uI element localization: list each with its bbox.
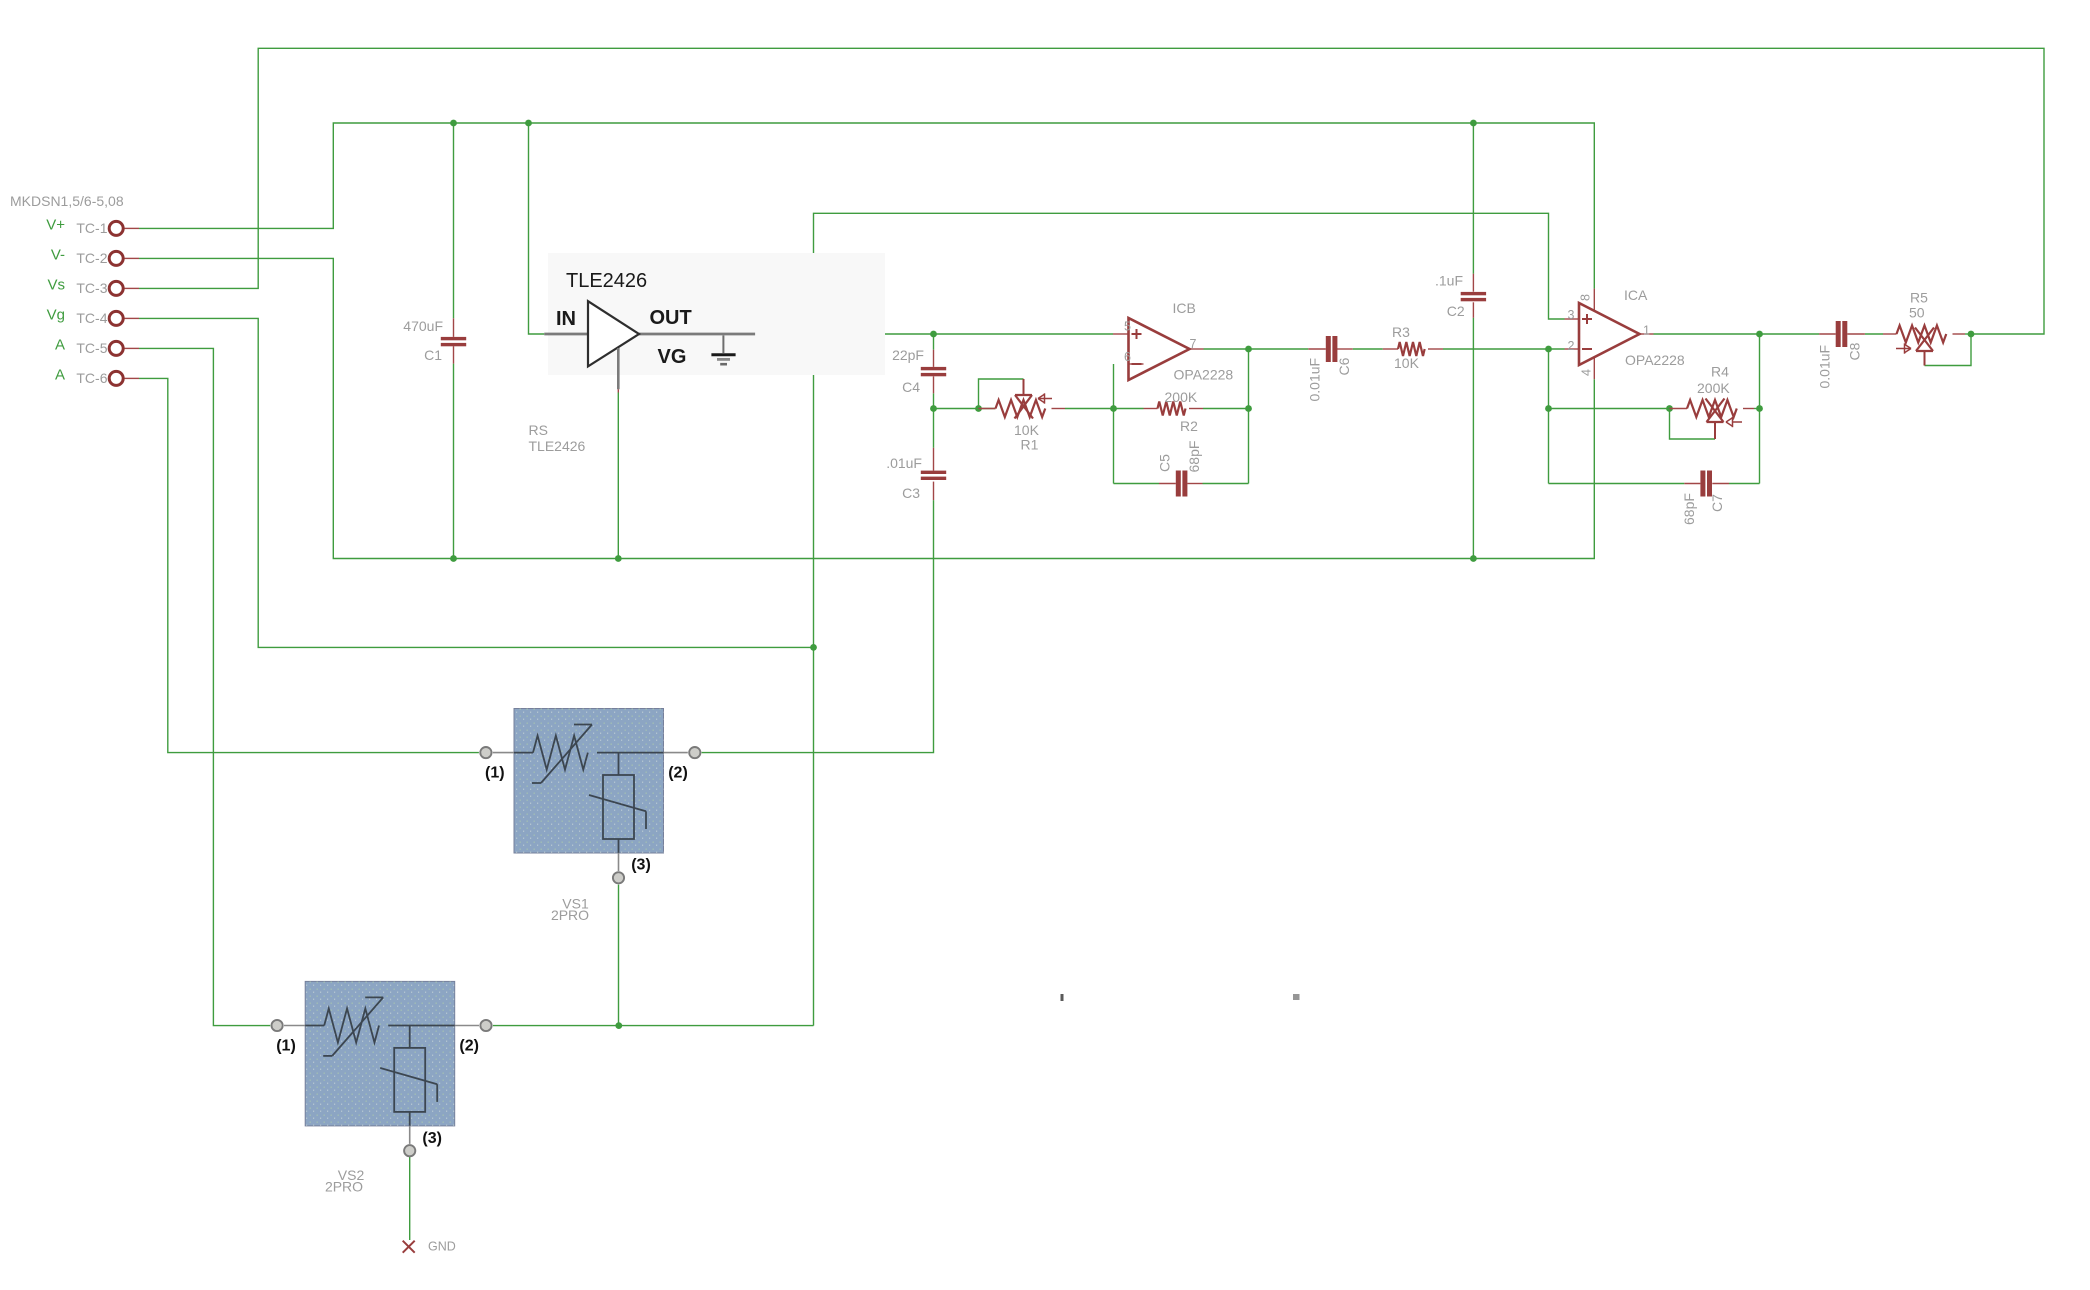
wire TC-6 to VS1 pin 1	[139, 378, 479, 752]
svg-text:TC-6: TC-6	[76, 370, 107, 386]
wire OUT net: TLE output to ICB pin 5	[755, 333, 1113, 335]
wire C4 node horizontal to R1	[934, 408, 996, 410]
junction R4 row / C7 drop	[1545, 405, 1552, 412]
op-amp ICB pins	[1113, 333, 1129, 335]
junction C2 / V+ rail	[1470, 120, 1477, 127]
svg-text:MKDSN1,5/6-5,08: MKDSN1,5/6-5,08	[10, 193, 124, 209]
svg-text:Vs: Vs	[47, 276, 65, 293]
svg-text:5: 5	[1124, 320, 1131, 334]
capacitor C1 pins	[453, 318, 455, 337]
capacitor C8 pins	[1819, 333, 1836, 335]
trimmer R4	[1687, 400, 1737, 417]
terminal TC-2	[109, 251, 123, 265]
svg-text:C5: C5	[1157, 454, 1173, 472]
ground GND marker	[403, 1241, 415, 1253]
resistor R2 pins	[1144, 408, 1158, 410]
wire TC-5 to VS2 pin 1	[139, 348, 270, 1025]
capacitor C7 pins	[1684, 483, 1700, 485]
trimmer R5 arrow	[1896, 348, 1910, 350]
svg-text:(1): (1)	[276, 1038, 296, 1055]
artifact mark 1	[1061, 994, 1064, 1001]
svg-text:TC-1: TC-1	[76, 220, 107, 236]
resistor R2	[1158, 402, 1186, 416]
capacitor C6	[1326, 336, 1331, 362]
wire C3 below to VS1 pin 2	[702, 500, 934, 752]
svg-text:.01uF: .01uF	[886, 455, 922, 471]
wire V- net: TC-2 down to V- rail y=558 across to ICA pin 4	[139, 258, 1594, 558]
op-amp ICA pins	[1565, 318, 1580, 320]
capacitor C4	[921, 367, 946, 370]
svg-text:2PRO: 2PRO	[325, 1179, 363, 1195]
svg-text:C4: C4	[902, 379, 920, 395]
svg-text:68pF: 68pF	[1681, 493, 1697, 525]
svg-text:OUT: OUT	[650, 307, 692, 329]
wire R3 to ICA pin 2	[1443, 348, 1565, 350]
capacitor C1	[441, 337, 466, 340]
svg-text:10K: 10K	[1394, 355, 1420, 371]
svg-text:(3): (3)	[631, 856, 651, 873]
terminal TC-4	[109, 311, 123, 325]
wire R1 wiper return	[979, 379, 1024, 409]
svg-text:R3: R3	[1392, 324, 1410, 340]
junction ICA output node	[1756, 331, 1763, 338]
svg-text:.1uF: .1uF	[1435, 273, 1463, 289]
terminal TC-5	[109, 341, 123, 355]
op-amp ICA	[1579, 303, 1640, 365]
svg-text:2: 2	[1568, 339, 1575, 353]
wire C2 bottom to V- rail	[1472, 318, 1474, 559]
wire C7 right to output vertical	[1729, 483, 1760, 485]
capacitor C4 pins	[933, 334, 935, 350]
trimmer R1	[996, 400, 1046, 417]
wire ICA fb row to R4 left	[1549, 408, 1670, 410]
wire OUT vertical x=813.5 from y=213 top route down to VS2 pin 2 row	[813, 334, 815, 1026]
wire C1 top drop from V+ rail	[453, 123, 455, 318]
terminal TC-6	[109, 371, 123, 385]
wire C1 bottom to V- rail	[453, 364, 455, 559]
capacitor C6 pins	[1308, 348, 1326, 350]
junction R4 right / C7	[1756, 405, 1763, 412]
TLE2426 VG pin	[617, 348, 620, 389]
wire TLE2426 IN riser from V+ rail	[529, 123, 545, 334]
terminal TC-3	[109, 281, 123, 295]
svg-text:(1): (1)	[485, 765, 505, 782]
svg-text:(2): (2)	[459, 1038, 479, 1055]
svg-text:GND: GND	[428, 1240, 456, 1254]
wire R1 right to ICB pin 6 node	[1065, 408, 1144, 410]
junction C2 / V- rail	[1470, 555, 1477, 562]
ground symbol	[722, 336, 724, 354]
wire VS2 pin 3 to GND	[409, 1157, 411, 1240]
wire ICA pin 2 node vertical down to C7 row	[1548, 349, 1550, 484]
wire ICB output row to C6	[1204, 348, 1309, 350]
svg-text:IN: IN	[556, 308, 576, 330]
trimmer R5 pins	[1883, 333, 1897, 335]
svg-text:470uF: 470uF	[403, 318, 443, 334]
svg-text:A: A	[55, 366, 65, 383]
svg-text:ICB: ICB	[1173, 300, 1196, 316]
svg-text:C1: C1	[424, 347, 442, 363]
wire R4 right stub to node	[1754, 408, 1760, 410]
svg-text:TC-3: TC-3	[76, 280, 107, 296]
capacitor C5 pins	[1159, 483, 1176, 485]
wire ICA output row to C8	[1654, 333, 1820, 335]
wire OUT top route to ICA pin 3	[814, 213, 1565, 334]
junction C4 / OUT net	[930, 331, 937, 338]
junction ICA pin2 node	[1545, 346, 1552, 353]
capacitor C3 pins	[933, 409, 935, 448]
wire TLE2426 VG to V- rail	[617, 393, 619, 559]
svg-text:2PRO: 2PRO	[551, 907, 589, 923]
capacitor C3	[921, 471, 946, 474]
wire C5 row	[1114, 483, 1160, 485]
wire C7 row left	[1549, 483, 1685, 485]
svg-text:R1: R1	[1021, 437, 1039, 453]
junction Vg net / OUT vertical	[810, 644, 817, 651]
wire R4 wiper return	[1670, 409, 1716, 440]
svg-text:R5: R5	[1910, 290, 1928, 306]
svg-text:4: 4	[1580, 369, 1594, 376]
svg-text:8: 8	[1579, 294, 1593, 301]
svg-text:TLE2426: TLE2426	[529, 438, 586, 454]
trimmer R1 pins	[979, 408, 996, 410]
junction C4-C3-R1 node	[930, 405, 937, 412]
svg-text:C6: C6	[1336, 357, 1352, 375]
svg-text:6: 6	[1124, 350, 1131, 364]
terminal TC-1	[109, 221, 123, 235]
resistor R3 pins	[1383, 348, 1398, 350]
wire ICB pin 6 vertical down to C5 row	[1113, 364, 1115, 484]
svg-text:TC-4: TC-4	[76, 310, 107, 326]
wire ICA output vertical x=1759.5	[1759, 334, 1761, 484]
rail splitter RS TLE2426	[548, 253, 885, 375]
trimmer R4 pins	[1670, 408, 1688, 410]
junction R2 right / C5	[1245, 405, 1252, 412]
op-amp ICB	[1129, 318, 1190, 380]
wire Vg net: TC-4 down and across to OUT vertical	[139, 318, 814, 647]
capacitor C8	[1836, 321, 1841, 347]
wire Vs net: TC-3 up to top rail y=48 across to right edge down to R5 output node	[139, 48, 2044, 334]
capacitor C7	[1700, 471, 1705, 497]
svg-text:TLE2426: TLE2426	[566, 270, 647, 292]
svg-text:TC-5: TC-5	[76, 340, 107, 356]
svg-text:22pF: 22pF	[892, 347, 924, 363]
svg-text:(2): (2)	[668, 765, 688, 782]
svg-text:0.01uF: 0.01uF	[1306, 358, 1322, 402]
trimmer R1 arrow	[1038, 398, 1052, 400]
trimmer R4 arrow	[1733, 421, 1742, 423]
varistor-fuse module VS2	[272, 981, 492, 1156]
artifact mark 2	[1293, 994, 1300, 1000]
junction OUT vertical / OUT net	[810, 331, 817, 338]
svg-text:0.01uF: 0.01uF	[1817, 345, 1833, 389]
svg-text:R2: R2	[1180, 418, 1198, 434]
svg-text:ICA: ICA	[1624, 287, 1648, 303]
svg-text:7: 7	[1190, 337, 1197, 351]
junction VG / V- rail	[615, 555, 622, 562]
wire C4 C3 node to R1 left	[933, 393, 935, 408]
svg-text:200K: 200K	[1165, 389, 1198, 405]
svg-text:RS: RS	[529, 422, 548, 438]
svg-text:C2: C2	[1447, 303, 1465, 319]
wire C6 to R3	[1353, 348, 1383, 350]
wire R5 right to output node	[1965, 333, 1971, 335]
junction R1 left / wiper	[975, 405, 982, 412]
svg-text:TC-2: TC-2	[76, 250, 107, 266]
wire ICB output vertical x=1248.5	[1248, 349, 1250, 484]
wire R2 right to ICB output vertical	[1203, 408, 1249, 410]
capacitor C5	[1176, 471, 1181, 497]
svg-text:C8: C8	[1846, 342, 1862, 360]
svg-text:VG: VG	[658, 346, 687, 368]
capacitor C2 pins	[1472, 274, 1474, 292]
junction R4 left / wiper	[1666, 405, 1673, 412]
svg-text:Vg: Vg	[47, 306, 65, 323]
junction TLE IN / V+ rail	[525, 120, 532, 127]
svg-text:(3): (3)	[422, 1130, 442, 1147]
wire C2 top drop from V+ rail	[1472, 123, 1474, 274]
junction VS1 pin3 / VS2 pin2 net	[615, 1022, 622, 1029]
trimmer R5	[1897, 326, 1947, 343]
svg-text:50: 50	[1909, 305, 1925, 321]
junction ICB pin6 / R1-R2 row	[1110, 405, 1117, 412]
junction ICB output node	[1245, 346, 1252, 353]
svg-text:A: A	[55, 336, 65, 353]
svg-text:R4: R4	[1711, 364, 1729, 380]
svg-text:V+: V+	[46, 216, 65, 233]
capacitor C2	[1461, 292, 1486, 295]
junction C1 / V- rail	[450, 555, 457, 562]
wire VS1 pin 3 drop to VS2 pin 2 net	[618, 885, 620, 1026]
junction C1 / V+ rail	[450, 120, 457, 127]
junction R5 right node	[1968, 331, 1975, 338]
svg-text:OPA2228: OPA2228	[1625, 352, 1685, 368]
wire VS2 pin 2 to OUT vertical	[493, 1025, 814, 1027]
svg-text:C3: C3	[902, 485, 920, 501]
svg-text:68pF: 68pF	[1186, 441, 1202, 473]
wire R5 wiper return	[1925, 334, 1972, 366]
svg-text:C7: C7	[1709, 494, 1725, 512]
varistor-fuse module VS1	[480, 709, 700, 884]
svg-text:3: 3	[1568, 308, 1575, 322]
svg-text:V-: V-	[51, 246, 65, 263]
wire C5 right to output vertical	[1203, 483, 1249, 485]
svg-text:200K: 200K	[1697, 380, 1730, 396]
svg-text:OPA2228: OPA2228	[1174, 367, 1234, 383]
resistor R3	[1398, 342, 1425, 356]
wire V+ net: TC-1 to V+ rail y=123 across to ICA pin 8	[139, 123, 1594, 289]
wire C8 to R5	[1865, 333, 1883, 335]
svg-text:1: 1	[1643, 324, 1650, 338]
